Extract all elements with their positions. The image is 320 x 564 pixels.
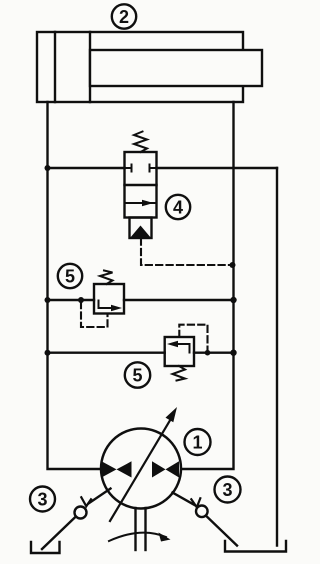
pump variable displacement arrow (110, 420, 171, 522)
valve U4 position divider (125, 184, 157, 186)
wire: main line at valve U4 level (48, 167, 125, 169)
cylinder barrel (37, 32, 243, 102)
valve U4 closed port mark right (150, 167, 157, 169)
check valve 3 right: line to tank (207, 516, 238, 545)
check valve 3 right seat (191, 498, 200, 507)
relief valve 5b spring (173, 366, 186, 381)
svg-text:2: 2 (119, 7, 129, 27)
wire: line at relief valve 5a level, left part (48, 299, 95, 301)
label circle 3 right (215, 477, 241, 503)
svg-text:1: 1 (192, 433, 202, 453)
relief valve 5a spring (100, 271, 113, 285)
wire: right rail from cylinder right port down to pump outlet (182, 102, 234, 469)
svg-text:3: 3 (37, 490, 47, 510)
label circle 4 (166, 195, 190, 219)
valve U4 pilot triangle (131, 226, 150, 238)
check valve 3 left ball (75, 507, 87, 519)
junction dot at relief 5b pilot / line (205, 350, 211, 356)
relief valve 5b box (165, 337, 194, 366)
wire: line at relief valve 5b level, right part (194, 352, 234, 354)
cylinder piston rod (90, 50, 262, 86)
svg-text:5: 5 (65, 267, 75, 287)
check valve 3 right ball (196, 506, 208, 518)
check valve 3 right: line from pump (173, 493, 195, 506)
tank left (31, 542, 60, 553)
wire: left rail from cylinder left port down to pump inlet (48, 102, 102, 469)
valve U4 spring (134, 132, 147, 153)
junction dot at left rail / valve line (45, 165, 51, 171)
check valve 3 left: line to pump (89, 489, 111, 504)
label circle 5a (58, 264, 82, 288)
label circle 3 left (30, 487, 55, 512)
pump rotation arc arrow (109, 533, 166, 541)
wire: line at relief valve 5b level, left part (48, 352, 165, 354)
valve U4 closed port mark left (125, 167, 132, 169)
relief valve 5b dashed pilot line (179, 325, 207, 351)
wire: line at relief valve 5a level, right part (124, 299, 234, 301)
label circle 5b (125, 362, 150, 387)
valve U4 pilot box (130, 218, 152, 239)
wire: main line right of valve U4 to far right rail (157, 167, 278, 169)
junction dot at left rail / relief 5b line (45, 350, 51, 356)
label circle 1 (185, 429, 211, 455)
junction dot at right rail / relief 5b line (230, 350, 236, 356)
pump left bowtie triangles (102, 461, 117, 477)
cylinder C (component 2): piston line left (54, 32, 56, 102)
pump right bowtie triangles (152, 461, 166, 477)
check valve 3 left seat (81, 497, 91, 506)
tank right (225, 541, 286, 552)
junction dot at right rail / relief 5a line (230, 297, 236, 303)
label circle 2 (112, 4, 136, 28)
relief valve 5a box (94, 284, 124, 314)
svg-text:3: 3 (222, 480, 232, 500)
wire: far right rail down to right tank (276, 168, 278, 546)
relief valve 5a dashed pilot line (81, 302, 108, 327)
pilot dashed line from valve U4 to right rail (141, 239, 233, 266)
pump drive shaft (134, 508, 136, 550)
pump P1 circle (101, 429, 181, 509)
cylinder piston line right (89, 32, 91, 102)
valve U4 flow path arrow in lower position (125, 202, 157, 204)
junction dot at right rail / U4 pilot dashed line (230, 262, 236, 268)
svg-text:5: 5 (132, 366, 142, 386)
relief valve 5a internal arrow (99, 301, 116, 309)
junction dot at relief 5a pilot branch (78, 297, 84, 303)
relief valve 5b internal arrow (175, 344, 190, 353)
check valve 3 left: line from tank (42, 517, 76, 549)
valve U4 main box (125, 152, 157, 218)
svg-text:4: 4 (173, 198, 183, 218)
junction dot at left rail / relief 5a line (45, 297, 51, 303)
